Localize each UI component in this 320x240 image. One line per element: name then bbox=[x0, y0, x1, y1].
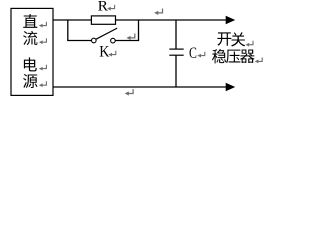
wire switch branch left segment bbox=[67, 40, 91, 42]
svg-text:R: R bbox=[98, 0, 109, 15]
wire bottom bus bbox=[53, 86, 227, 88]
wire switch branch right segment bbox=[115, 40, 139, 42]
line-break mark after 电 bbox=[39, 65, 47, 71]
line-break mark above top bus bbox=[154, 9, 162, 15]
capacitor C top plate bbox=[169, 48, 183, 50]
DC power source box bbox=[11, 8, 53, 95]
label 开 bbox=[217, 32, 231, 45]
capacitor C bottom plate bbox=[169, 54, 183, 56]
line-break mark after 开关 bbox=[246, 41, 254, 47]
line-break mark after 直 bbox=[39, 22, 47, 28]
line-break mark after 稳压器 bbox=[255, 58, 263, 64]
svg-text:K: K bbox=[99, 44, 109, 61]
arrowhead top output bbox=[226, 16, 236, 24]
switch K left contact bbox=[92, 38, 97, 43]
label 压 bbox=[226, 50, 240, 64]
line-break mark after 源 bbox=[39, 81, 47, 87]
wire switch branch left drop bbox=[67, 20, 69, 41]
wire capacitor bottom lead bbox=[175, 55, 177, 87]
line-break mark after C bbox=[197, 52, 205, 58]
resistor R body bbox=[91, 16, 115, 24]
wire top bus bbox=[53, 19, 227, 21]
label 直 bbox=[23, 14, 37, 28]
wire capacitor top lead bbox=[175, 20, 177, 49]
switch K right contact bbox=[111, 38, 116, 43]
arrowhead bottom output bbox=[226, 83, 236, 91]
label 源 bbox=[23, 74, 37, 88]
line-break mark in switch branch bbox=[126, 34, 134, 40]
label 电 bbox=[24, 57, 37, 71]
line-break mark below bottom bus bbox=[125, 89, 133, 95]
line-break mark after 流 bbox=[39, 38, 47, 44]
svg-text:C: C bbox=[189, 44, 197, 62]
label 流 bbox=[23, 31, 37, 45]
label 器 bbox=[240, 50, 255, 64]
switch K blade bbox=[96, 28, 117, 39]
line-break mark after K bbox=[108, 51, 116, 57]
label 稳 bbox=[212, 49, 226, 63]
line-break mark after R bbox=[107, 5, 115, 11]
wire switch branch riser bbox=[138, 20, 140, 41]
label 关 bbox=[231, 32, 245, 46]
